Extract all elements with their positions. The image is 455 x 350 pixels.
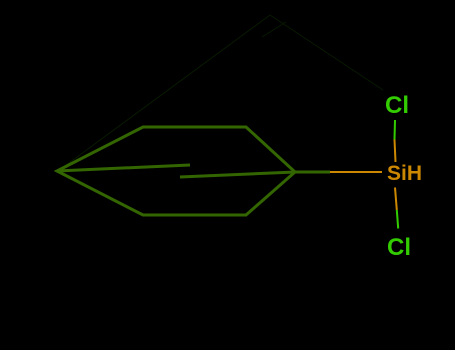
wire Si-Cl top bond chlorine half <box>394 120 397 140</box>
wire Si-Cl bottom bond chlorine half <box>397 210 398 229</box>
faint bond ring tip to apex <box>58 15 270 171</box>
wire bridge front bond <box>57 165 190 171</box>
ring bicyclo[2.2.2]octane skeleton <box>57 127 330 215</box>
wire bridge back bond <box>180 172 295 177</box>
svg-text:Cl: Cl <box>387 234 411 261</box>
wire C-Si bond carbon half <box>295 171 330 174</box>
svg-text:SiH: SiH <box>387 162 422 185</box>
wire hexagon outline <box>57 127 295 215</box>
svg-text:Cl: Cl <box>385 92 409 119</box>
faint bond apex to Cl <box>270 15 383 90</box>
wire Si-Cl top bond silicon half <box>395 140 396 163</box>
wire Si-Cl bottom bond silicon half <box>395 188 397 211</box>
faint double-bond inner line near apex <box>262 22 286 37</box>
wire C-Si bond silicon half <box>330 171 382 173</box>
